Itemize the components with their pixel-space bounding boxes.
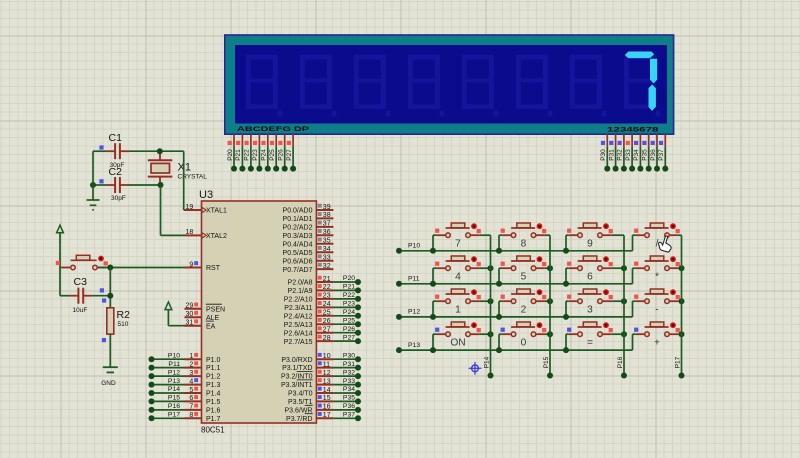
svg-text:XTAL2: XTAL2 — [206, 233, 227, 240]
U3 pin 30 ALE — [185, 311, 220, 322]
svg-text:35: 35 — [323, 238, 331, 245]
U3 pin 4 P1.3 — [185, 378, 221, 389]
svg-text:ABCDEFG DP: ABCDEFG DP — [237, 126, 310, 133]
svg-text:2: 2 — [189, 361, 193, 368]
wire key 1 right terminal to column — [479, 300, 490, 302]
U3 pin 33 P0.6/AD6 — [283, 254, 334, 265]
display digit pin wire P30 — [600, 134, 610, 171]
wire C3 left to VCC rail — [60, 295, 70, 297]
svg-text:12: 12 — [323, 370, 331, 377]
origin marker — [469, 362, 482, 375]
svg-text:P12: P12 — [168, 369, 180, 376]
svg-text:R2: R2 — [117, 309, 131, 321]
wire key 5 right terminal to column — [545, 267, 550, 269]
wire key 4 left terminal to row bus — [433, 268, 437, 284]
display digit 6 (blank) — [516, 55, 553, 117]
svg-text:P10: P10 — [168, 352, 180, 359]
display digit pin wire P35 — [642, 134, 652, 171]
svg-text:P30: P30 — [343, 352, 355, 359]
svg-text:P31: P31 — [343, 361, 355, 368]
push button key ON — [435, 322, 481, 348]
svg-text:32: 32 — [323, 263, 331, 270]
svg-text:EA: EA — [206, 323, 216, 330]
svg-text:P27: P27 — [286, 149, 293, 161]
push button key 5 — [501, 256, 547, 282]
push button reset — [56, 255, 108, 270]
svg-text:4: 4 — [189, 378, 193, 385]
svg-text:P1.0: P1.0 — [206, 357, 221, 364]
node column P17 row 2 junction — [679, 265, 685, 271]
svg-text:P2.4/A12: P2.4/A12 — [284, 313, 313, 320]
svg-text:15: 15 — [323, 395, 331, 402]
node column P17 row 4 junction — [679, 331, 685, 337]
wire net P31 from U3 — [333, 361, 361, 371]
crystal X1 — [148, 151, 207, 185]
svg-text:P20: P20 — [343, 275, 355, 282]
svg-text:P3.7/RD: P3.7/RD — [286, 416, 312, 423]
U3 pin 21 P2.0/A8 — [288, 276, 334, 287]
svg-text:P2.0/A8: P2.0/A8 — [288, 280, 313, 287]
wire ground rail for C1 C2 — [92, 151, 94, 199]
wire net P12 to U3 — [149, 369, 185, 379]
svg-text:+: + — [654, 337, 660, 348]
svg-text:P11: P11 — [408, 276, 420, 283]
node bus P11 column 1 junction — [430, 281, 436, 287]
push button key 9 — [567, 223, 613, 249]
wire net P36 from U3 — [333, 403, 361, 413]
wire key ON left terminal to row bus — [433, 334, 437, 350]
ground symbol GND for R2 — [101, 367, 118, 387]
svg-text:0: 0 — [521, 337, 527, 348]
U3 pin 16 P3.6/WR — [284, 404, 333, 415]
display digit 8 showing 7 — [625, 52, 657, 111]
wire net P35 from U3 — [333, 395, 361, 405]
svg-text:P36: P36 — [343, 403, 355, 410]
U3 pin 32 P0.7/AD7 — [283, 263, 334, 274]
wire C2 right to crystal bottom node — [129, 184, 161, 186]
display segment labels ABCDEFG DP — [237, 126, 310, 133]
U3 pin 15 P3.5/T1 — [288, 395, 333, 406]
wire net P21 from U3 — [333, 284, 361, 294]
wire net P33 from U3 — [333, 378, 361, 388]
U3 pin 35 P0.4/AD4 — [283, 238, 334, 249]
svg-text:GND: GND — [101, 380, 116, 387]
U3 pin 17 P3.7/RD — [286, 412, 333, 423]
svg-text:P20: P20 — [227, 149, 234, 161]
svg-text:12345678: 12345678 — [607, 127, 659, 134]
svg-text:P1.1: P1.1 — [206, 365, 221, 372]
wire key + right terminal to column — [678, 333, 681, 335]
svg-text:30: 30 — [186, 311, 194, 318]
svg-text:P14: P14 — [168, 386, 180, 393]
svg-text:3: 3 — [587, 304, 593, 315]
svg-text:P15: P15 — [543, 356, 550, 368]
svg-text:36: 36 — [323, 229, 331, 236]
wire key 6 left terminal to row bus — [566, 268, 569, 284]
wire key 9 right terminal to column — [611, 234, 624, 236]
svg-text:P33: P33 — [343, 378, 355, 385]
U3 pin 10 P3.0/RXD — [281, 353, 333, 364]
U3 pin 6 P1.5 — [185, 395, 221, 406]
node bus P12 column 3 junction — [563, 314, 569, 320]
wire net P20 from U3 — [333, 275, 361, 285]
node bus P10 column 2 junction — [496, 248, 502, 254]
svg-text:P3.3/INT1: P3.3/INT1 — [281, 382, 313, 389]
svg-text:P1.7: P1.7 — [206, 416, 221, 423]
svg-text:11: 11 — [323, 361, 330, 368]
node column P15 row 4 junction — [547, 331, 553, 337]
wire key 5 left terminal to row bus — [499, 268, 502, 284]
display digit pin wire P34 — [633, 134, 643, 171]
svg-text:P12: P12 — [408, 309, 420, 316]
node bus P10 column 1 junction — [430, 248, 436, 254]
svg-text:P26: P26 — [278, 149, 285, 161]
push button key 6 — [567, 256, 613, 282]
wire key - left terminal to row bus — [633, 301, 636, 317]
node column P15 row 3 junction — [547, 298, 553, 304]
svg-text:P34: P34 — [343, 386, 355, 393]
wire key = right terminal to column — [611, 333, 624, 335]
wire key 7 right terminal to column — [479, 234, 490, 236]
U3 pin 23 P2.2/A10 — [284, 293, 334, 304]
wire column P17 — [674, 235, 684, 378]
svg-text:P11: P11 — [168, 361, 180, 368]
U3 pin 3 P1.2 — [185, 370, 221, 381]
svg-text:80C51: 80C51 — [201, 425, 225, 434]
U3 pin 27 P2.6/A14 — [284, 326, 334, 337]
power flag VCC for reset — [57, 225, 64, 233]
wire R2 to ground — [109, 334, 111, 366]
wire key 6 right terminal to column — [611, 267, 624, 269]
svg-text:P10: P10 — [408, 243, 420, 250]
wire net P15 to U3 — [149, 395, 185, 405]
svg-text:P1.4: P1.4 — [206, 391, 221, 398]
svg-text:P2.3/A11: P2.3/A11 — [284, 305, 312, 312]
svg-text:P13: P13 — [168, 378, 180, 385]
wire key 9 left terminal to row bus — [566, 235, 569, 251]
svg-text:U3: U3 — [199, 189, 213, 201]
svg-text:P2.1/A9: P2.1/A9 — [288, 288, 313, 295]
svg-text:5: 5 — [521, 271, 527, 282]
svg-text:P0.0/AD0: P0.0/AD0 — [283, 208, 313, 215]
node crystal top junction — [157, 148, 163, 154]
svg-text:XTAL1: XTAL1 — [206, 208, 227, 215]
svg-text:P0.4/AD4: P0.4/AD4 — [283, 241, 313, 248]
svg-text:10uF: 10uF — [73, 307, 88, 314]
node column P16 row 4 junction — [621, 331, 627, 337]
U3 pin 29 PSEN — [185, 303, 226, 314]
wire column P15 — [543, 235, 553, 378]
svg-text:P32: P32 — [343, 369, 355, 376]
display digit 5 (blank) — [462, 55, 499, 117]
svg-text:*: * — [655, 271, 659, 282]
svg-text:38: 38 — [323, 212, 331, 219]
wire net P25 from U3 — [333, 317, 361, 327]
power flag VCC for EA — [165, 302, 172, 310]
svg-text:8: 8 — [189, 412, 193, 419]
svg-text:P21: P21 — [235, 149, 242, 161]
wire net P32 from U3 — [333, 369, 361, 379]
node crystal bottom junction — [158, 182, 164, 188]
node bus P11 column 2 junction — [496, 281, 502, 287]
capacitor C3 10uF — [70, 276, 107, 314]
svg-text:P3.0/RXD: P3.0/RXD — [281, 357, 312, 364]
svg-text:P2.7/A15: P2.7/A15 — [284, 339, 313, 346]
svg-text:7: 7 — [455, 238, 461, 249]
svg-text:28: 28 — [323, 335, 331, 342]
wire key 2 left terminal to row bus — [499, 301, 502, 317]
svg-text:17: 17 — [323, 412, 331, 419]
svg-text:33: 33 — [323, 255, 331, 262]
svg-text:P16: P16 — [617, 356, 624, 368]
wire C1 left to ground rail — [93, 150, 106, 152]
svg-text:P17: P17 — [168, 412, 180, 419]
display digit 7 (blank) — [570, 55, 607, 117]
svg-text:P0.2/AD2: P0.2/AD2 — [283, 225, 313, 232]
node bus P13 column 2 junction — [496, 347, 502, 353]
node column P16 row 2 junction — [621, 265, 627, 271]
svg-text:13: 13 — [323, 378, 331, 385]
node bus P13 column 1 junction — [430, 347, 436, 353]
svg-text:24: 24 — [323, 301, 331, 308]
7-segment display bezel — [225, 35, 674, 134]
svg-text:P31: P31 — [608, 149, 615, 161]
wire net P23 from U3 — [333, 301, 361, 311]
svg-text:P1.3: P1.3 — [206, 382, 221, 389]
microcontroller U3 80C51 body — [202, 201, 317, 423]
svg-text:30pF: 30pF — [111, 195, 126, 202]
wire key 3 left terminal to row bus — [566, 301, 569, 317]
svg-text:37: 37 — [323, 221, 331, 228]
svg-text:27: 27 — [323, 327, 331, 334]
svg-text:P0.6/AD6: P0.6/AD6 — [283, 258, 313, 265]
svg-text:9: 9 — [189, 261, 193, 268]
push button key 3 — [567, 289, 613, 315]
node column P14 row 3 junction — [488, 298, 494, 304]
U3 pin 8 P1.7 — [185, 412, 221, 423]
wire C1 right to crystal top node — [129, 150, 184, 152]
U3 pin 12 P3.2/INT0 — [281, 370, 333, 381]
wire key ON right terminal to column — [479, 333, 490, 335]
svg-text:4: 4 — [455, 271, 461, 282]
wire column P14 — [483, 235, 493, 378]
display segment pin wire P22 — [244, 134, 254, 171]
svg-text:P14: P14 — [483, 356, 490, 368]
svg-text:P3.4/T0: P3.4/T0 — [288, 391, 313, 398]
svg-text:7: 7 — [189, 404, 193, 411]
wire net P27 from U3 — [333, 334, 361, 344]
display digit pin wire P33 — [625, 134, 635, 171]
U3 pin 37 P0.2/AD2 — [283, 221, 334, 232]
wire row bus P10 — [396, 243, 633, 254]
svg-text:P23: P23 — [252, 149, 259, 161]
wire net P11 to U3 — [149, 361, 185, 371]
wire net P16 to U3 — [149, 403, 185, 413]
U3 pin 22 P2.1/A9 — [288, 284, 334, 295]
display segment pin wire P25 — [269, 134, 279, 171]
display digit 2 (blank) — [300, 55, 337, 117]
U3 pin 19 XTAL1 — [185, 204, 227, 215]
display digit 8 (blank) — [624, 55, 661, 117]
node column P14 row 4 junction — [488, 331, 494, 337]
svg-text:18: 18 — [186, 229, 194, 236]
U3 pin 9 RST — [185, 261, 221, 272]
U3 pin 31 EA — [185, 319, 216, 330]
svg-text:3: 3 — [189, 370, 193, 377]
svg-text:19: 19 — [186, 204, 194, 211]
svg-text:31: 31 — [186, 320, 194, 327]
wire column P16 — [617, 235, 627, 378]
U3 pin 28 P2.7/A15 — [284, 335, 334, 346]
push button key * — [634, 256, 680, 282]
wire key 3 right terminal to column — [611, 300, 624, 302]
svg-text:P1.5: P1.5 — [206, 399, 221, 406]
node column P17 row 3 junction — [679, 298, 685, 304]
svg-text:P1.6: P1.6 — [206, 408, 221, 415]
display digit pin wire P31 — [608, 134, 618, 171]
U3 pin 13 P3.3/INT1 — [281, 378, 333, 389]
svg-text:16: 16 — [323, 404, 331, 411]
wire net P34 from U3 — [333, 386, 361, 396]
display segment pin wire P23 — [252, 134, 262, 171]
push button key / — [634, 223, 680, 249]
wire key = left terminal to row bus — [566, 334, 569, 350]
svg-text:C2: C2 — [109, 166, 123, 178]
wire net P22 from U3 — [333, 292, 361, 302]
svg-text:39: 39 — [323, 204, 331, 211]
svg-text:P34: P34 — [633, 149, 640, 161]
wire crystal top to XTAL1 — [183, 151, 186, 210]
wire net P17 to U3 — [149, 412, 185, 422]
svg-text:P24: P24 — [343, 309, 355, 316]
svg-text:C3: C3 — [74, 276, 88, 288]
node bus P12 column 1 junction — [430, 314, 436, 320]
U3 pin 11 P3.1/TXD — [282, 361, 333, 372]
svg-text:6: 6 — [587, 271, 593, 282]
push button key - — [634, 289, 680, 315]
svg-text:29: 29 — [186, 303, 194, 310]
svg-text:9: 9 — [587, 238, 593, 249]
svg-text:P35: P35 — [642, 149, 649, 161]
wire VCC down to reset button and C3 — [60, 233, 62, 296]
push button key 2 — [501, 289, 547, 315]
display digit pin wire P37 — [658, 134, 668, 171]
wire key / left terminal to row bus — [633, 235, 636, 251]
svg-text:-: - — [655, 304, 658, 315]
wire key 0 right terminal to column — [545, 333, 550, 335]
U3 pin 5 P1.4 — [185, 387, 221, 398]
U3 pin 1 P1.0 — [185, 353, 221, 364]
wire net P14 to U3 — [149, 386, 185, 396]
display digit index labels 12345678 — [607, 127, 659, 134]
wire key 4 right terminal to column — [479, 267, 490, 269]
svg-text:P16: P16 — [168, 403, 180, 410]
wire key / right terminal to column — [678, 234, 681, 236]
U3 pin 34 P0.5/AD5 — [283, 246, 334, 257]
svg-text:P23: P23 — [343, 301, 355, 308]
node bus P10 column 3 junction — [563, 248, 569, 254]
display segment pin wire P27 — [286, 134, 296, 171]
wire net P10 to U3 — [149, 352, 185, 362]
U3 pin 24 P2.3/A11 — [284, 301, 333, 312]
svg-text:P17: P17 — [674, 356, 681, 368]
wire key * right terminal to column — [678, 267, 681, 269]
svg-text:8: 8 — [521, 238, 527, 249]
svg-text:25: 25 — [323, 310, 331, 317]
push button key + — [634, 322, 680, 348]
mouse cursor — [657, 234, 674, 252]
svg-text:ON: ON — [450, 337, 465, 348]
push button key = — [567, 322, 613, 348]
push button key 8 — [501, 223, 547, 249]
svg-text:10: 10 — [323, 353, 331, 360]
push button key 0 — [501, 322, 547, 348]
display digit 3 (blank) — [354, 55, 391, 117]
U3 pin 14 P3.4/T0 — [288, 387, 333, 398]
svg-text:P24: P24 — [261, 149, 268, 161]
svg-text:1: 1 — [455, 304, 461, 315]
push button key 7 — [435, 223, 481, 249]
node column P16 row 3 junction — [621, 298, 627, 304]
svg-text:P33: P33 — [625, 149, 632, 161]
node bus P11 column 3 junction — [563, 281, 569, 287]
display segment pin wire P21 — [235, 134, 245, 171]
U3 pin 26 P2.5/A13 — [284, 318, 334, 329]
node column P15 row 2 junction — [547, 265, 553, 271]
svg-text:P36: P36 — [650, 149, 657, 161]
display digit pin wire P32 — [617, 134, 627, 171]
U3 pin 18 XTAL2 — [185, 229, 227, 240]
svg-text:P2.2/A10: P2.2/A10 — [284, 297, 313, 304]
capacitor C2 30pF — [99, 166, 129, 202]
wire row bus P12 — [396, 309, 633, 320]
svg-text:P22: P22 — [343, 292, 355, 299]
svg-text:P2.5/A13: P2.5/A13 — [284, 322, 313, 329]
wire row bus P11 — [396, 276, 633, 287]
U3 pin 25 P2.4/A12 — [284, 310, 334, 321]
svg-text:6: 6 — [189, 395, 193, 402]
svg-text:P35: P35 — [343, 395, 355, 402]
wire VCC to EA pin 31 — [168, 310, 184, 326]
svg-text:2: 2 — [521, 304, 527, 315]
wire reset junction down to R2 — [109, 268, 111, 308]
wire net P37 from U3 — [333, 412, 361, 422]
wire crystal bottom to XTAL2 — [161, 185, 185, 235]
display segment pin wire P20 — [227, 134, 237, 171]
ground symbol for C1 C2 — [87, 200, 100, 210]
wire key 1 left terminal to row bus — [433, 301, 437, 317]
svg-text:P37: P37 — [343, 412, 355, 419]
svg-text:P37: P37 — [658, 149, 665, 161]
svg-text:23: 23 — [323, 293, 331, 300]
wire C2 left to ground rail — [90, 182, 106, 188]
label U3 — [199, 189, 213, 201]
wire key 7 left terminal to row bus — [433, 235, 437, 251]
svg-text:26: 26 — [323, 318, 331, 325]
svg-text:1: 1 — [189, 353, 193, 360]
svg-text:C1: C1 — [109, 132, 123, 144]
svg-text:510: 510 — [118, 321, 129, 328]
svg-text:CRYSTAL: CRYSTAL — [178, 174, 208, 181]
display segment pin wire P24 — [261, 134, 271, 171]
wire key + left terminal to row bus — [633, 334, 636, 350]
svg-text:P30: P30 — [600, 149, 607, 161]
svg-text:P0.3/AD3: P0.3/AD3 — [283, 233, 313, 240]
node bus P12 column 2 junction — [496, 314, 502, 320]
U3 pin 2 P1.1 — [185, 361, 221, 372]
wire net P13 to U3 — [149, 378, 185, 388]
svg-text:P0.1/AD1: P0.1/AD1 — [283, 216, 313, 223]
